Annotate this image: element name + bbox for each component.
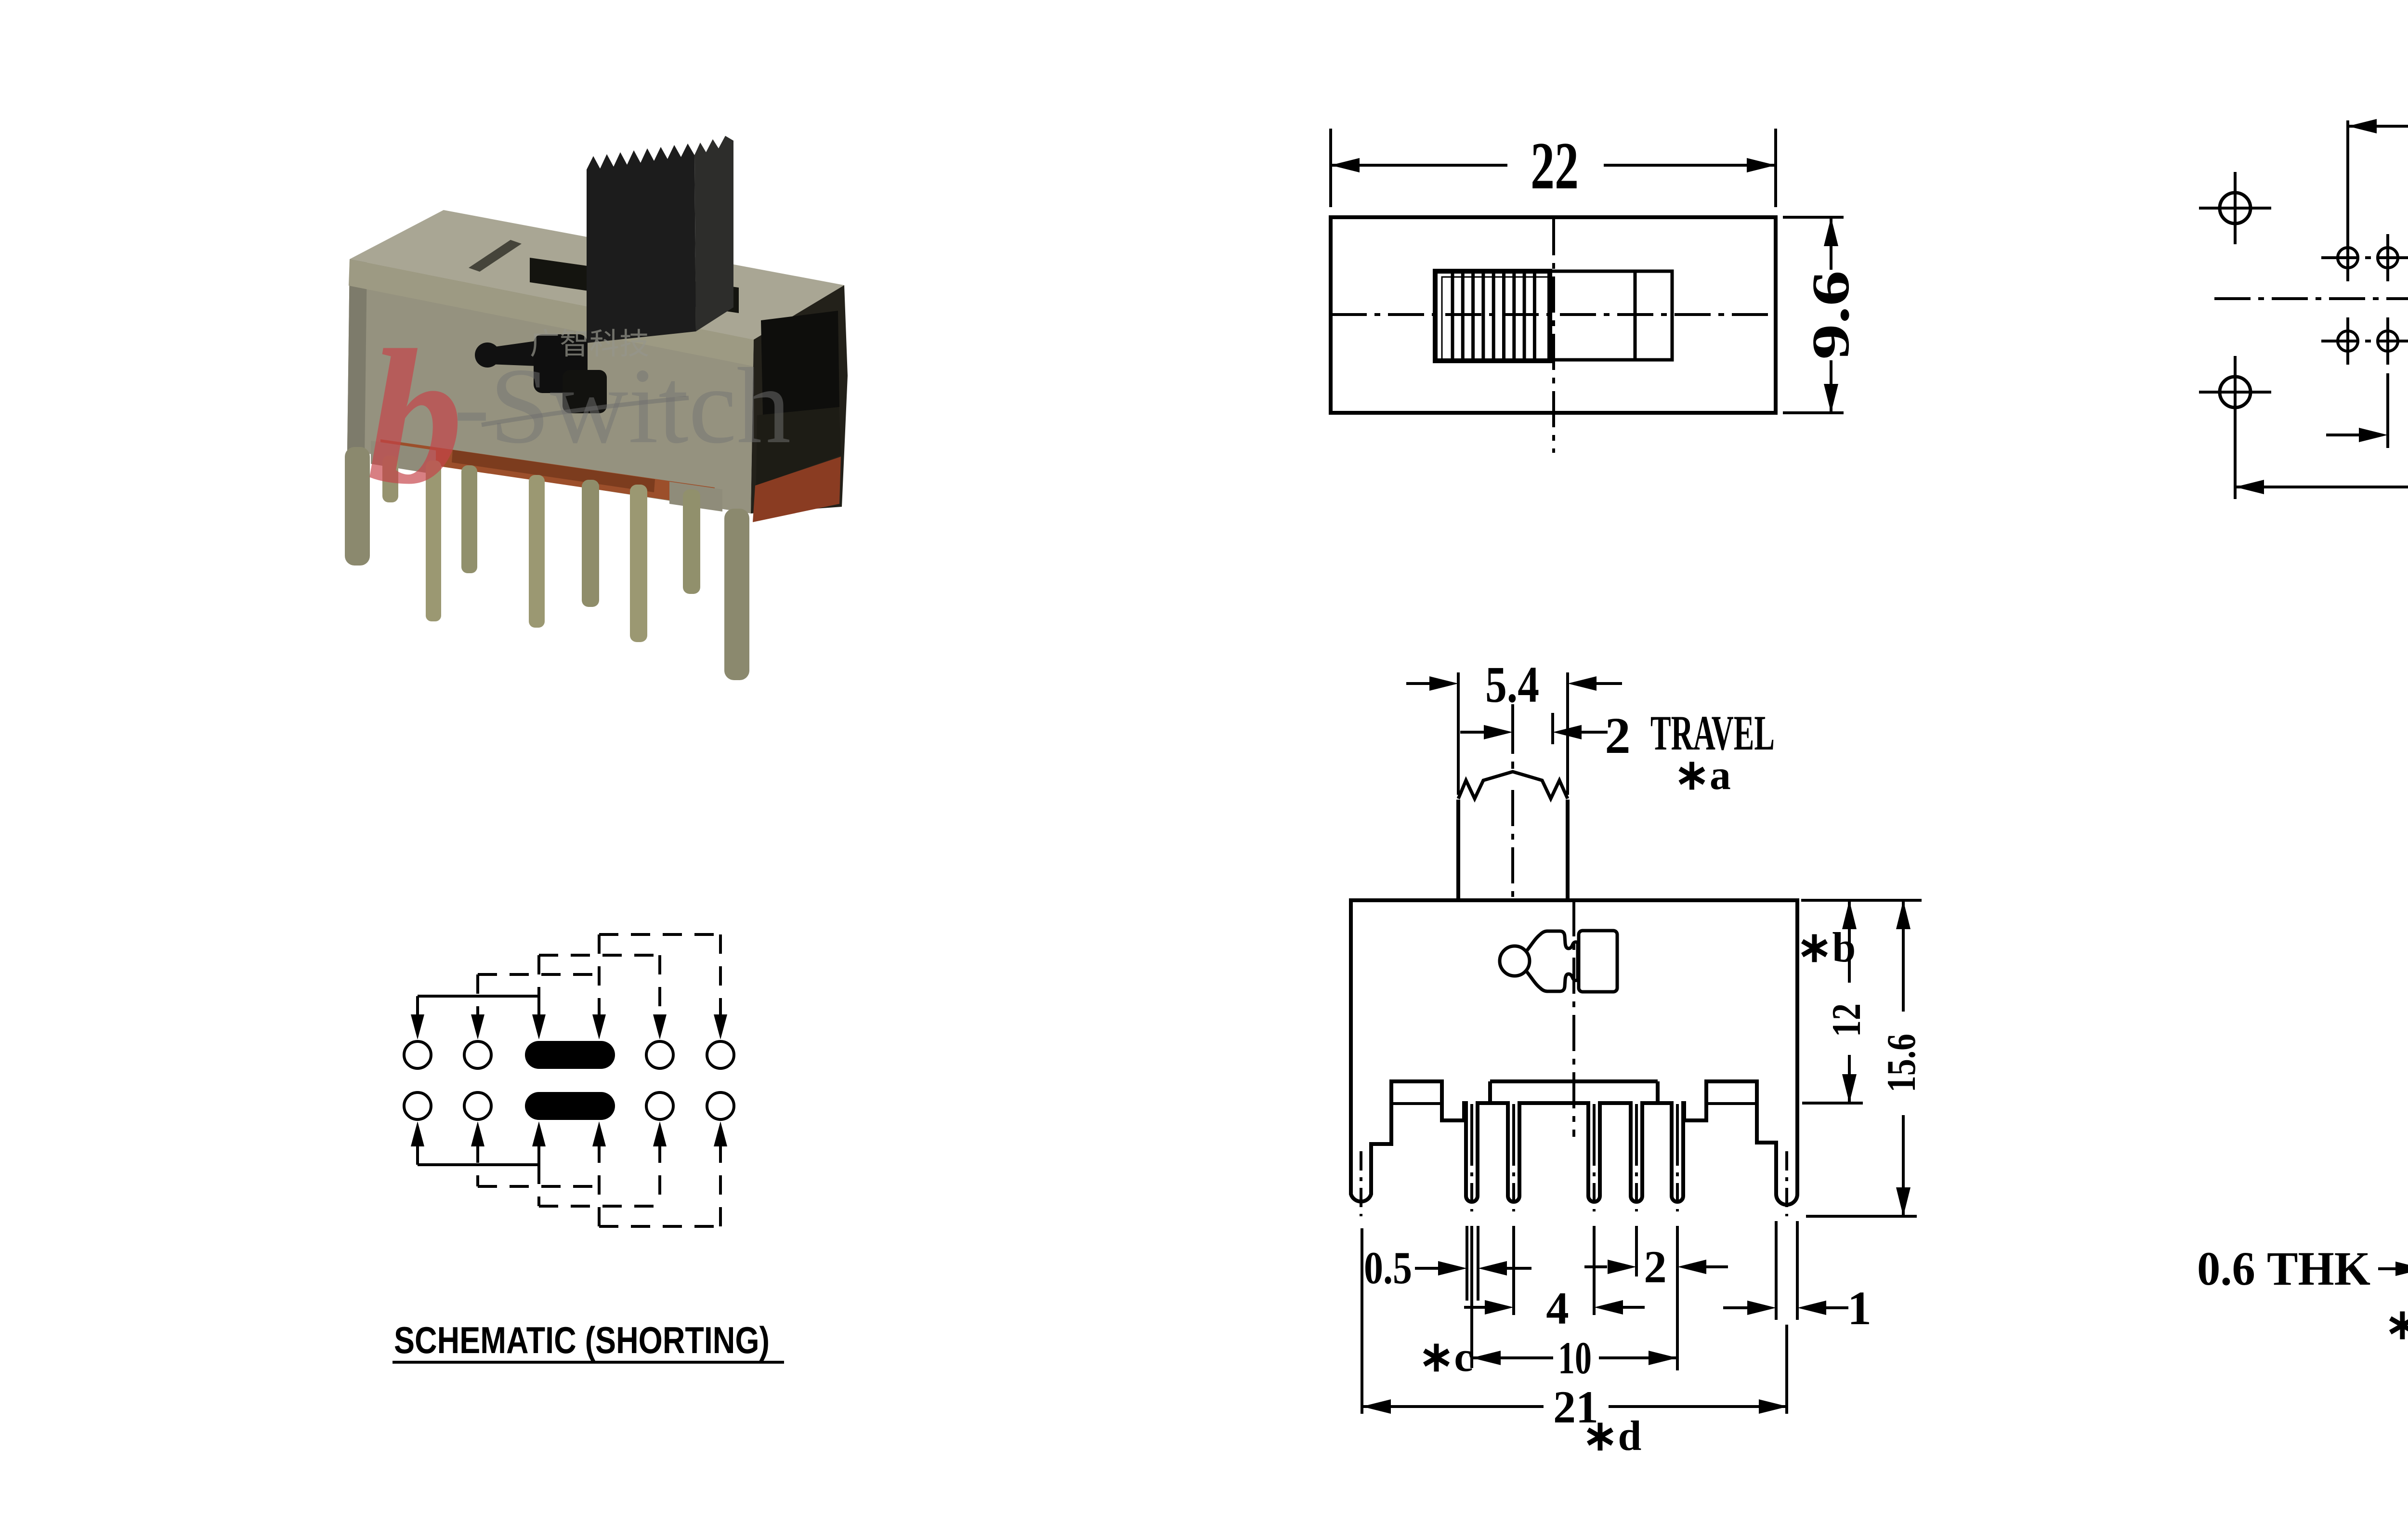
front view: dimension 10 bbox=[1472, 1356, 1553, 1359]
product photo: front red-brown base strip bbox=[380, 439, 715, 507]
svg-text:5.4: 5.4 bbox=[1485, 657, 1539, 713]
top view: serration lines bbox=[1451, 273, 1454, 360]
product photo: right face red base strip bbox=[753, 457, 841, 522]
svg-text:12: 12 bbox=[1824, 1003, 1869, 1037]
pcb layout: mounting holes bbox=[2220, 193, 2251, 224]
svg-text:2: 2 bbox=[1605, 708, 1631, 764]
schematic: bottom connector dashed c2-c4 bbox=[478, 1185, 599, 1188]
pcb layout: dimension 21 bbox=[2235, 486, 2408, 488]
front view: spring contact shape bbox=[1527, 931, 1578, 991]
schematic: bottom rise wires and arrows bbox=[416, 1144, 419, 1165]
pcb layout: main horizontal centerline bbox=[2214, 297, 2408, 300]
product photo: actuator pin ball bbox=[475, 342, 500, 368]
svg-text:广智科技: 广智科技 bbox=[530, 328, 649, 361]
svg-text:∗d: ∗d bbox=[1583, 1413, 1642, 1460]
schematic: pin circles row 1 bbox=[404, 1041, 431, 1068]
product photo: knob slot dark area bbox=[530, 258, 739, 313]
front view: ear plate lines bbox=[1391, 1102, 1442, 1105]
front view: pin centerlines bbox=[1470, 1104, 1473, 1146]
front view: rivet circle bbox=[1500, 946, 1530, 976]
front view: knob break zigzag bbox=[1458, 772, 1568, 799]
front view: body outline with legs and pins bbox=[1351, 900, 1797, 1205]
product photo: black knob front face with serrated top bbox=[587, 144, 696, 343]
schematic: top connector solid pole1 bbox=[418, 995, 539, 998]
product photo: right face black slider block bbox=[761, 311, 839, 415]
front view: body centerline bbox=[1572, 900, 1575, 1137]
front view: dimension 5.4 extension lines bbox=[1457, 672, 1460, 795]
svg-text:10: 10 bbox=[1558, 1332, 1592, 1383]
svg-text:∗c: ∗c bbox=[1419, 1334, 1473, 1381]
top view: body outline bbox=[1331, 217, 1776, 413]
top view: horizontal centerline bbox=[1331, 313, 1776, 316]
product photo: right side opening bbox=[751, 285, 848, 513]
front view: dimension 12 bbox=[1848, 900, 1851, 983]
product photo: metal bottom tabs over base bbox=[371, 441, 436, 474]
schematic: bottom connector solid pole2 bbox=[418, 1163, 539, 1166]
front view: pin1 center extension for 10 bbox=[1470, 1226, 1473, 1368]
front view: dimension 4 bbox=[1464, 1306, 1485, 1309]
svg-text:SCHEMATIC (SHORTING): SCHEMATIC (SHORTING) bbox=[394, 1319, 770, 1361]
front view: dimension 15.6 extension line bbox=[1806, 1215, 1917, 1218]
top view: knob divider line bbox=[1634, 271, 1637, 360]
top view: knob plain part bbox=[1550, 271, 1672, 360]
svg-text:∗f: ∗f bbox=[2384, 1302, 2408, 1348]
top view: serrated knob part bbox=[1435, 271, 1550, 361]
top view: dimension 22 extension lines bbox=[1329, 129, 1332, 207]
schematic: top drop wires and arrows bbox=[416, 996, 419, 1017]
front view: dimension 15.6 bbox=[1902, 900, 1905, 1012]
front view: dimension 5.4 bbox=[1406, 682, 1429, 685]
schematic: shorting bar row 1 bbox=[525, 1041, 615, 1069]
schematic: top connector dashed c3-c5 bbox=[539, 954, 660, 957]
product photo: top face slot bbox=[469, 240, 522, 272]
front view: dimension 1 bbox=[1723, 1306, 1747, 1309]
top view: dimension 9.6 extension lines bbox=[1783, 216, 1844, 219]
svg-text:15.6: 15.6 bbox=[1879, 1034, 1924, 1092]
top view: dimension 9.6 bbox=[1830, 217, 1832, 270]
pcb layout: dimension 10 extension lines bbox=[2346, 120, 2349, 241]
front view: dimension 2 TRAVEL bbox=[1460, 731, 1484, 734]
svg-text:2: 2 bbox=[1644, 1241, 1667, 1292]
front view: pin2/pin3 center extension lines bbox=[1512, 1226, 1515, 1315]
front view: leg center extension lines for 21 bbox=[1361, 1228, 1363, 1414]
svg-text:b: b bbox=[367, 310, 463, 524]
front view: leg centerlines bbox=[1360, 1151, 1362, 1216]
product photo: front face bbox=[347, 259, 754, 513]
schematic: pin circles row 2 bbox=[404, 1092, 431, 1119]
front view: pin4/pin5 center extension lines bbox=[1635, 1226, 1638, 1276]
top view: dimension 22 bbox=[1331, 164, 1507, 167]
front view: knob centerline bbox=[1511, 704, 1514, 769]
svg-text:22: 22 bbox=[1531, 129, 1579, 203]
product photo: metal pins bbox=[345, 447, 370, 566]
front view: right leg edge extension lines bbox=[1775, 1221, 1778, 1320]
product photo: black knob right face bbox=[694, 136, 733, 331]
top view: vertical centerline bbox=[1552, 219, 1555, 453]
front view: dimension 2 bbox=[1584, 1265, 1607, 1268]
front view: travel ticks bbox=[1511, 713, 1514, 751]
schematic: bottom connector dashed c3-c5 bbox=[539, 1205, 660, 1208]
front view: dimension 12 extension lines bbox=[1801, 899, 1922, 902]
svg-text:∗a: ∗a bbox=[1674, 752, 1731, 799]
front view: knob sides bbox=[1456, 800, 1460, 900]
svg-text:0.6 THK: 0.6 THK bbox=[2197, 1242, 2370, 1295]
schematic: top connector dashed c2-c4 bbox=[478, 973, 599, 976]
front view: rivet square bbox=[1579, 931, 1617, 992]
svg-text:9.6: 9.6 bbox=[1801, 271, 1860, 360]
front view: dimension 21 bbox=[1362, 1405, 1544, 1408]
pcb layout: pin holes row 1 bbox=[2338, 248, 2358, 268]
front view: pin1 edge extension lines bbox=[1466, 1226, 1468, 1301]
schematic: top connector dashed c4-c6 bbox=[599, 933, 720, 936]
pcb layout: pin holes row 2 bbox=[2338, 331, 2358, 351]
svg-text:1: 1 bbox=[1847, 1281, 1871, 1335]
product photo: slide switch body top face bbox=[350, 210, 844, 340]
svg-text:4: 4 bbox=[1546, 1283, 1569, 1334]
svg-text:∗b: ∗b bbox=[1797, 924, 1856, 971]
pcb layout: row centerlines bbox=[2321, 256, 2408, 259]
product photo: right face lower dark base bbox=[756, 407, 841, 486]
pcb layout: dimension 4 extension lines bbox=[2386, 373, 2389, 448]
pcb layout: mounting hole extension lines down to 21 dim bbox=[2234, 356, 2237, 499]
pcb layout: dimension 4 bbox=[2326, 434, 2359, 436]
pcb layout: dimension 10 bbox=[2348, 125, 2408, 128]
schematic: shorting bar row 2 bbox=[525, 1092, 615, 1120]
schematic: bottom connector dashed c4-c6 bbox=[599, 1225, 720, 1228]
front view: central tab bbox=[1488, 1081, 1492, 1103]
product photo: actuator stem bbox=[487, 341, 538, 366]
product photo: actuator block bbox=[534, 334, 588, 393]
svg-text:0.5: 0.5 bbox=[1364, 1242, 1412, 1293]
